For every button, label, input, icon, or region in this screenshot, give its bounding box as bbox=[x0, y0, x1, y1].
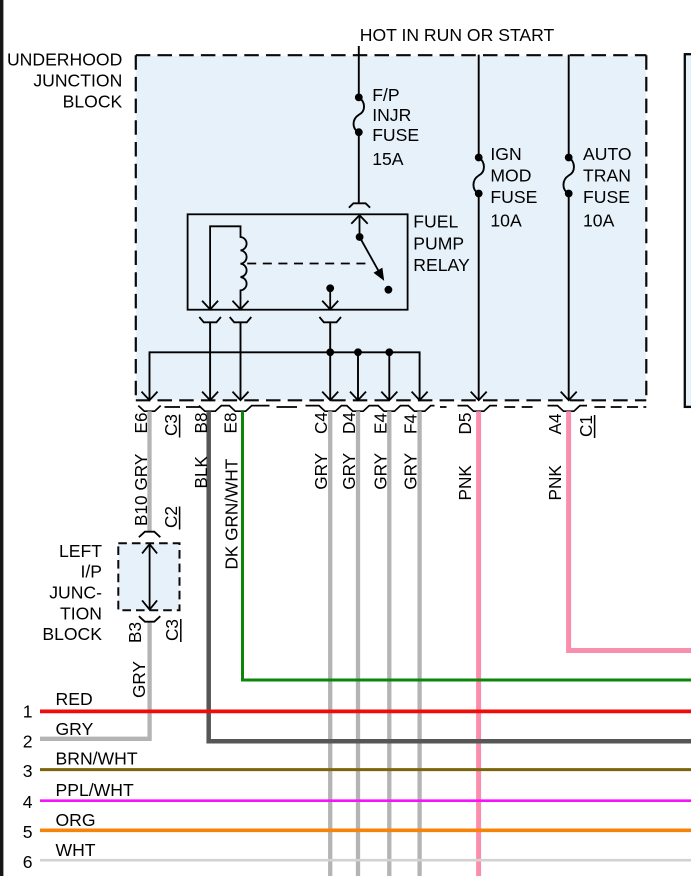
fuse AUTO TRAN FUSE 10A bbox=[565, 154, 573, 162]
wire from HOT bus to AUTO TRAN fuse bbox=[568, 55, 570, 158]
connector cup C2 above left block bbox=[139, 532, 160, 538]
svg-text:GRY: GRY bbox=[129, 661, 149, 698]
terminal arrows at block edge bbox=[142, 392, 158, 401]
relay output contact bbox=[326, 284, 334, 292]
relay coil pin arrows bbox=[202, 301, 218, 310]
page edge bar bbox=[0, 0, 3, 876]
svg-text:C1: C1 bbox=[576, 415, 596, 437]
svg-text:D4: D4 bbox=[339, 412, 359, 434]
wire relay coil- to terminal B8 bbox=[209, 322, 211, 399]
relay switch common wire bbox=[359, 215, 361, 237]
svg-text:3: 3 bbox=[23, 761, 33, 781]
circuit 1 RED bbox=[40, 710, 691, 714]
svg-text:GRY: GRY bbox=[56, 719, 94, 739]
svg-text:INJR: INJR bbox=[372, 105, 411, 125]
svg-text:FUSE: FUSE bbox=[372, 125, 419, 145]
right junction block (partial) bbox=[685, 54, 691, 407]
svg-text:RED: RED bbox=[56, 689, 93, 709]
svg-text:E4: E4 bbox=[370, 413, 390, 434]
svg-text:JUNC-: JUNC- bbox=[49, 583, 102, 603]
svg-text:C2: C2 bbox=[161, 506, 181, 528]
svg-text:6: 6 bbox=[23, 852, 33, 872]
circuit 4 PPL/WHT bbox=[40, 799, 691, 802]
circuit 3 BRN/WHT bbox=[40, 768, 691, 771]
relay K1 box bbox=[188, 214, 408, 309]
svg-text:A4: A4 bbox=[545, 413, 565, 434]
left I/P junction block bbox=[118, 543, 179, 610]
svg-text:HOT IN RUN OR START: HOT IN RUN OR START bbox=[360, 25, 555, 45]
svg-text:GRY: GRY bbox=[311, 452, 331, 489]
svg-text:E6: E6 bbox=[131, 412, 151, 433]
circuit 5 ORG bbox=[40, 828, 691, 832]
svg-text:FUEL: FUEL bbox=[413, 212, 458, 232]
svg-text:FUSE: FUSE bbox=[490, 187, 537, 207]
svg-text:2: 2 bbox=[23, 732, 33, 752]
svg-text:PNK: PNK bbox=[455, 465, 475, 501]
svg-text:B3: B3 bbox=[125, 622, 145, 643]
relay coil bbox=[210, 226, 247, 309]
wire fuse to relay connector bbox=[358, 132, 360, 203]
svg-text:5: 5 bbox=[23, 822, 33, 842]
svg-text:AUTO: AUTO bbox=[583, 144, 632, 164]
svg-text:D5: D5 bbox=[455, 413, 475, 435]
svg-text:BLOCK: BLOCK bbox=[63, 91, 123, 111]
wire F4 GRY bbox=[417, 411, 421, 876]
svg-text:TION: TION bbox=[60, 604, 102, 624]
svg-text:E8: E8 bbox=[221, 412, 241, 433]
bus junction dots bbox=[326, 348, 334, 356]
wire D4 GRY bbox=[356, 411, 360, 876]
relay input pin arrow bbox=[351, 215, 367, 224]
svg-text:LEFT: LEFT bbox=[59, 541, 102, 561]
svg-text:B8: B8 bbox=[191, 412, 211, 433]
svg-text:4: 4 bbox=[23, 792, 33, 812]
relay pin cups bbox=[199, 317, 221, 322]
relay switch pivot bbox=[356, 233, 364, 241]
svg-text:GRY: GRY bbox=[401, 452, 421, 489]
svg-text:BLOCK: BLOCK bbox=[42, 624, 102, 644]
svg-text:1: 1 bbox=[23, 702, 33, 722]
wire A4 PNK bbox=[569, 411, 691, 650]
svg-text:TRAN: TRAN bbox=[583, 166, 631, 186]
svg-text:C4: C4 bbox=[311, 412, 331, 434]
svg-text:I/P: I/P bbox=[80, 562, 102, 582]
svg-text:PPL/WHT: PPL/WHT bbox=[56, 780, 134, 800]
connector cup above relay input pin bbox=[349, 203, 370, 207]
relay mechanical link (dashed) bbox=[247, 263, 368, 265]
relay NO contact bbox=[385, 286, 393, 294]
svg-text:F/P: F/P bbox=[372, 85, 399, 105]
svg-text:PUMP: PUMP bbox=[413, 233, 464, 253]
connector cup C3 below left block bbox=[139, 616, 160, 622]
svg-text:C3: C3 bbox=[162, 619, 182, 641]
wire B3 GRY to circuit 2 bbox=[40, 622, 150, 739]
wire B8 BLK bbox=[209, 411, 691, 741]
pass-through wire in left block bbox=[149, 544, 151, 609]
circuit 6 WHT bbox=[40, 859, 691, 862]
svg-text:B10 GRY: B10 GRY bbox=[131, 453, 151, 526]
svg-text:10A: 10A bbox=[490, 210, 522, 230]
svg-text:DK GRN/WHT: DK GRN/WHT bbox=[222, 458, 242, 569]
svg-text:IGN: IGN bbox=[490, 144, 521, 164]
wire relay coil+ to terminal E8 bbox=[240, 322, 242, 399]
svg-text:F4: F4 bbox=[401, 414, 421, 434]
svg-text:ORG: ORG bbox=[56, 810, 96, 830]
underhood junction block bbox=[136, 56, 646, 400]
fuse IGN MOD FUSE 10A bbox=[475, 154, 483, 162]
svg-text:WHT: WHT bbox=[56, 840, 96, 860]
bus to terminals E6 C4 D4 E4 F4 bbox=[150, 352, 420, 399]
wire IGN fuse to terminal D5 bbox=[478, 194, 480, 400]
relay switch arm bbox=[360, 237, 379, 270]
fuse F/P INJR FUSE 15A bbox=[355, 94, 363, 102]
relay output pin arrow bbox=[322, 301, 338, 310]
svg-text:MOD: MOD bbox=[490, 166, 531, 186]
wire from HOT bus to F/P fuse bbox=[358, 46, 360, 97]
connector strip dashes bbox=[165, 406, 647, 408]
svg-text:FUSE: FUSE bbox=[583, 187, 630, 207]
wire E8 DK GRN/WHT bbox=[243, 411, 691, 680]
connector strip C3/C1 cups bbox=[138, 406, 587, 412]
svg-text:GRY: GRY bbox=[370, 452, 390, 489]
wire AUTO TRAN fuse to terminal A4 bbox=[568, 194, 570, 400]
svg-text:UNDERHOOD: UNDERHOOD bbox=[7, 50, 122, 70]
svg-text:GRY: GRY bbox=[339, 452, 359, 489]
svg-text:15A: 15A bbox=[372, 149, 404, 169]
wire C4 GRY bbox=[328, 411, 332, 876]
svg-text:JUNCTION: JUNCTION bbox=[33, 71, 122, 91]
svg-text:PNK: PNK bbox=[545, 465, 565, 501]
wire from HOT bus to IGN MOD fuse bbox=[478, 55, 480, 158]
svg-text:BLK: BLK bbox=[191, 455, 211, 488]
svg-text:BRN/WHT: BRN/WHT bbox=[56, 749, 138, 769]
svg-text:RELAY: RELAY bbox=[413, 255, 470, 275]
wire E4 GRY bbox=[387, 411, 391, 876]
relay output wire bbox=[329, 288, 331, 309]
wire E6 B10 GRY bbox=[147, 411, 151, 531]
wire relay output to bus bbox=[329, 322, 331, 399]
svg-text:10A: 10A bbox=[583, 210, 615, 230]
svg-text:C3: C3 bbox=[161, 414, 181, 436]
wire D5 PNK bbox=[476, 411, 481, 876]
